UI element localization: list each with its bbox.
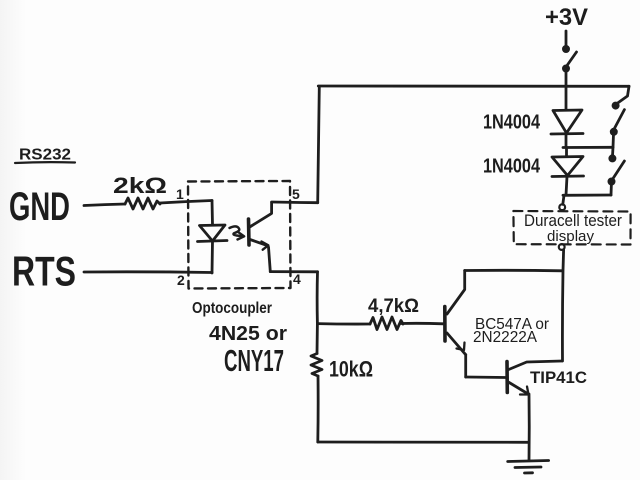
svg-text:RTS: RTS <box>12 248 76 295</box>
svg-text:2: 2 <box>177 272 185 288</box>
svg-text:TIP41C: TIP41C <box>530 368 587 387</box>
svg-text:1N4004: 1N4004 <box>483 112 541 134</box>
svg-text:display: display <box>547 228 594 245</box>
svg-text:GND: GND <box>9 185 70 229</box>
svg-text:1: 1 <box>176 186 184 202</box>
svg-text:2N2222A: 2N2222A <box>473 329 537 346</box>
svg-text:+3V: +3V <box>545 4 588 31</box>
svg-text:1N4004: 1N4004 <box>483 156 541 178</box>
svg-text:4,7kΩ: 4,7kΩ <box>368 296 419 317</box>
svg-text:2kΩ: 2kΩ <box>113 173 167 198</box>
svg-text:5: 5 <box>292 186 300 202</box>
svg-text:RS232: RS232 <box>19 147 71 164</box>
svg-text:CNY17: CNY17 <box>224 343 284 378</box>
svg-text:10kΩ: 10kΩ <box>329 357 373 382</box>
svg-text:Optocoupler: Optocoupler <box>192 300 272 317</box>
svg-text:4N25 or: 4N25 or <box>209 323 287 345</box>
svg-text:4: 4 <box>293 271 301 287</box>
